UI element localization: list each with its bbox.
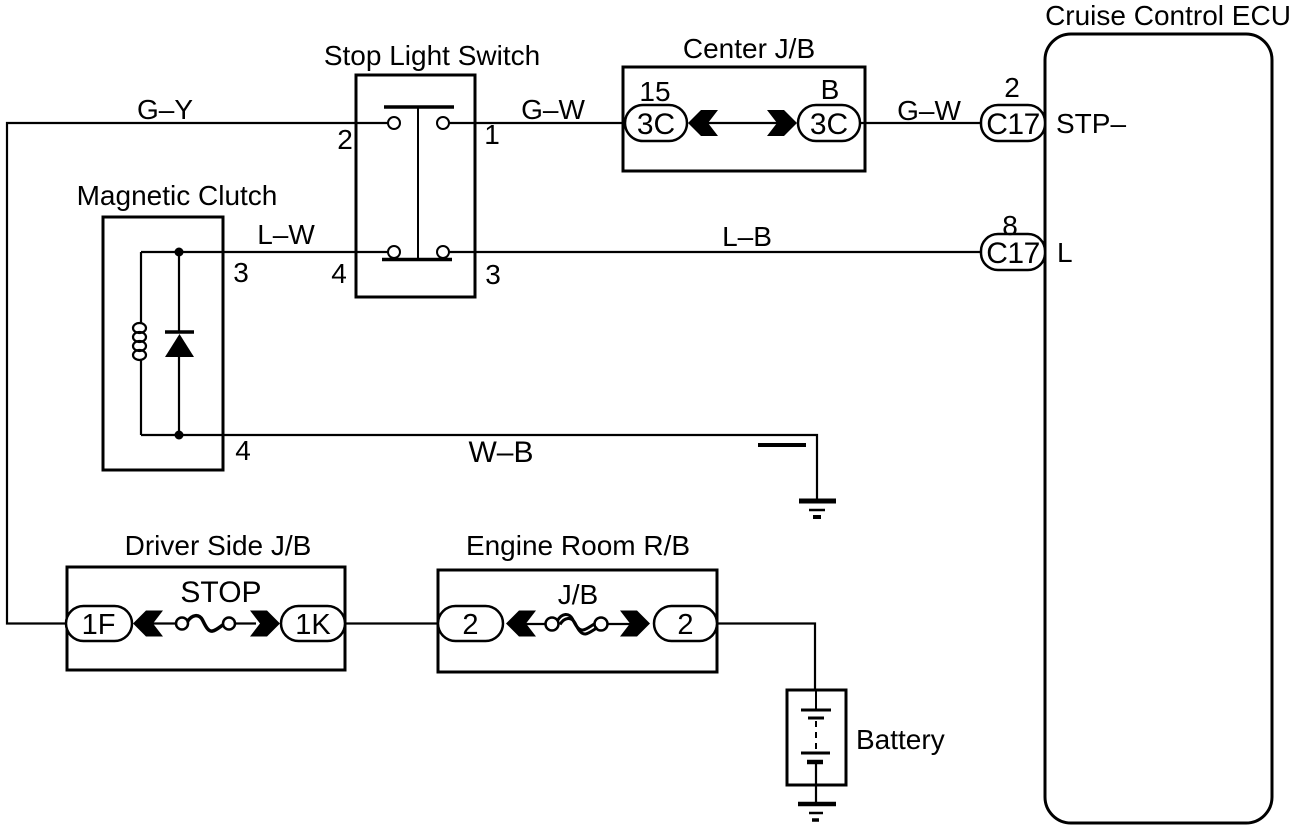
svg-text:C17: C17: [986, 237, 1040, 270]
svg-text:Battery: Battery: [856, 724, 945, 755]
svg-text:Driver Side J/B: Driver Side J/B: [125, 530, 312, 561]
svg-text:1: 1: [484, 119, 500, 150]
svg-text:Center J/B: Center J/B: [683, 33, 815, 64]
svg-text:2: 2: [462, 609, 478, 641]
svg-text:15: 15: [639, 76, 670, 107]
svg-text:4: 4: [331, 258, 347, 289]
svg-text:L–W: L–W: [257, 219, 315, 250]
svg-text:B: B: [821, 74, 840, 105]
svg-text:Cruise Control ECU: Cruise Control ECU: [1045, 0, 1291, 31]
svg-text:2: 2: [337, 124, 353, 155]
svg-text:Engine Room R/B: Engine Room R/B: [466, 530, 690, 561]
svg-text:1K: 1K: [295, 609, 331, 641]
svg-text:STP–: STP–: [1056, 108, 1126, 139]
svg-text:G–Y: G–Y: [137, 94, 193, 125]
svg-text:2: 2: [1004, 72, 1020, 103]
svg-text:G–W: G–W: [521, 94, 585, 125]
svg-text:3C: 3C: [810, 108, 848, 141]
svg-text:1F: 1F: [82, 609, 116, 641]
svg-text:L–B: L–B: [722, 221, 772, 252]
svg-text:L: L: [1057, 237, 1073, 268]
svg-text:Stop Light Switch: Stop Light Switch: [324, 40, 540, 71]
svg-text:W–B: W–B: [468, 436, 533, 469]
svg-text:G–W: G–W: [897, 95, 961, 126]
svg-text:3: 3: [233, 257, 249, 288]
svg-text:2: 2: [677, 609, 693, 641]
svg-text:C17: C17: [986, 108, 1040, 141]
svg-text:STOP: STOP: [180, 576, 261, 609]
svg-text:3: 3: [485, 259, 501, 290]
svg-text:J/B: J/B: [558, 579, 598, 610]
svg-text:3C: 3C: [637, 108, 675, 141]
svg-text:4: 4: [235, 435, 251, 466]
svg-text:Magnetic Clutch: Magnetic Clutch: [77, 180, 278, 211]
